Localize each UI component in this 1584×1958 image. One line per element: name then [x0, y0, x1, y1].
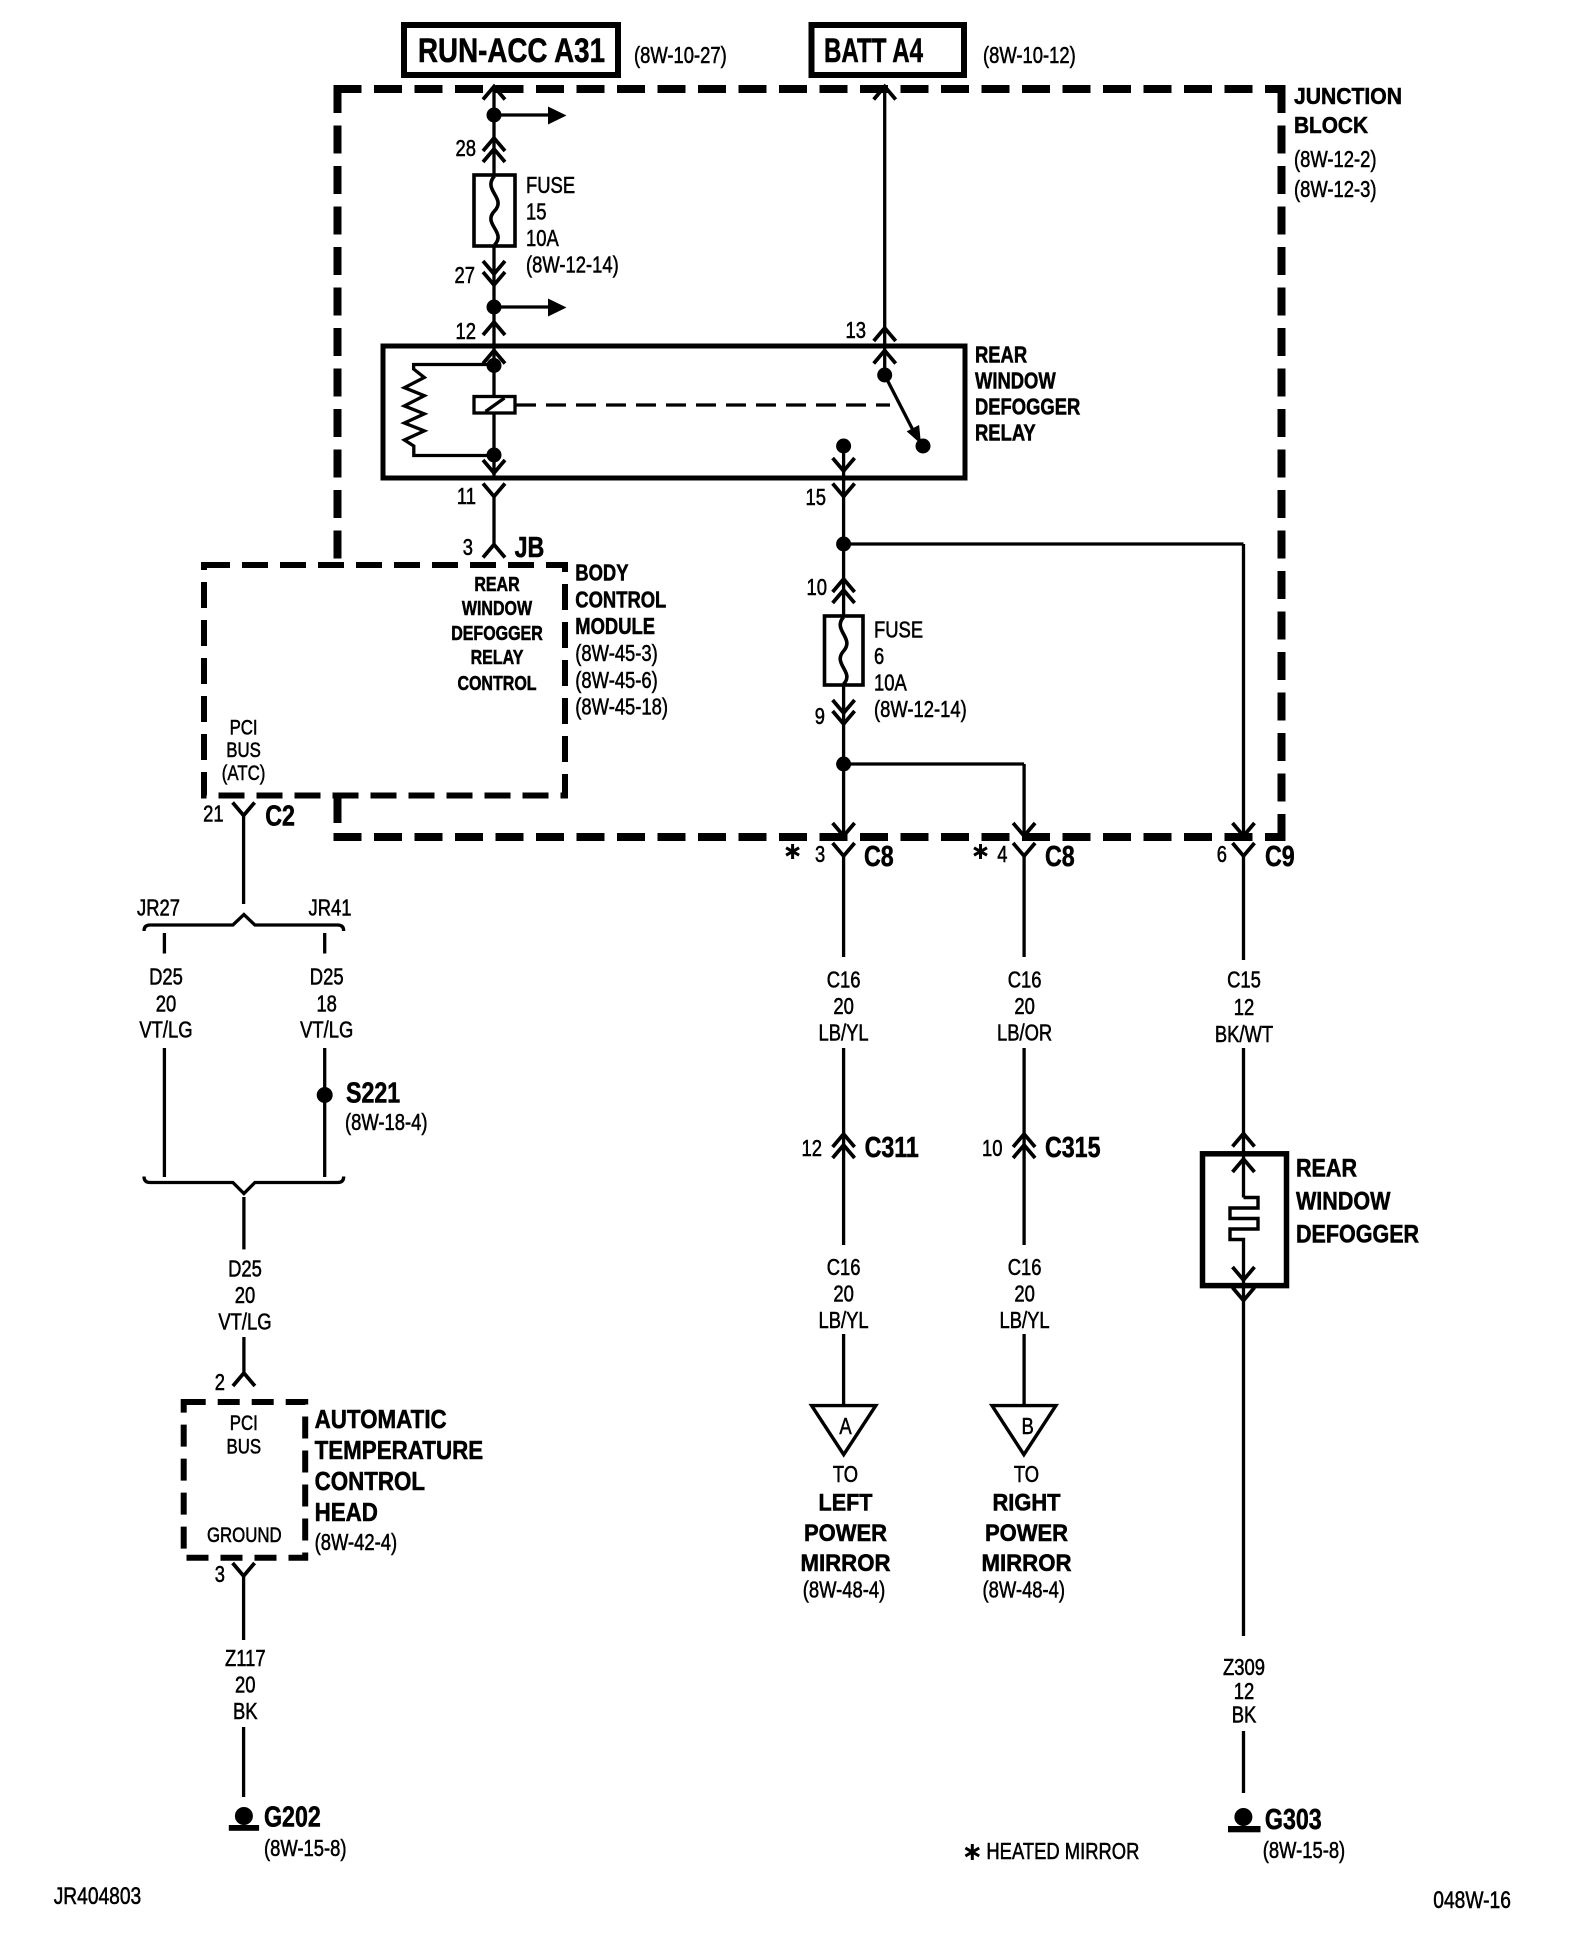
svg-text:FUSE: FUSE [526, 172, 575, 198]
svg-text:12: 12 [456, 318, 477, 344]
svg-text:C16: C16 [1008, 1254, 1042, 1280]
svg-text:LB/YL: LB/YL [1000, 1307, 1050, 1333]
svg-text:LEFT: LEFT [819, 1490, 873, 1517]
svg-text:DEFOGGER: DEFOGGER [1296, 1221, 1419, 1249]
svg-text:(8W-48-4): (8W-48-4) [983, 1577, 1066, 1603]
svg-text:(8W-45-3): (8W-45-3) [575, 640, 658, 666]
svg-text:20: 20 [833, 1281, 854, 1307]
svg-text:(8W-18-4): (8W-18-4) [345, 1109, 428, 1135]
svg-text:POWER: POWER [804, 1520, 887, 1547]
svg-text:(8W-10-12): (8W-10-12) [983, 42, 1076, 68]
svg-text:3: 3 [215, 1561, 225, 1587]
svg-text:C8: C8 [864, 841, 894, 873]
svg-text:VT/LG: VT/LG [300, 1017, 353, 1043]
svg-text:C311: C311 [865, 1132, 919, 1164]
svg-text:C315: C315 [1045, 1132, 1101, 1164]
svg-text:MIRROR: MIRROR [801, 1550, 891, 1577]
svg-text:(8W-42-4): (8W-42-4) [315, 1529, 398, 1555]
svg-text:13: 13 [846, 317, 867, 343]
svg-text:CONTROL: CONTROL [457, 673, 536, 695]
svg-text:C2: C2 [265, 801, 295, 833]
svg-text:10: 10 [982, 1135, 1003, 1161]
svg-text:JB: JB [515, 532, 545, 564]
svg-text:Z309: Z309 [1223, 1654, 1265, 1680]
svg-text:PCI: PCI [230, 1412, 258, 1435]
svg-text:12: 12 [1234, 1678, 1255, 1704]
svg-text:B: B [1022, 1413, 1034, 1439]
svg-text:REAR: REAR [1296, 1155, 1357, 1183]
svg-text:(8W-45-18): (8W-45-18) [575, 694, 668, 720]
svg-text:10: 10 [807, 574, 828, 600]
svg-text:9: 9 [815, 703, 825, 729]
svg-text:VT/LG: VT/LG [218, 1309, 271, 1335]
svg-text:HEATED MIRROR: HEATED MIRROR [986, 1838, 1139, 1864]
svg-text:JR404803: JR404803 [54, 1883, 142, 1910]
svg-text:11: 11 [457, 483, 476, 509]
svg-text:D25: D25 [228, 1256, 262, 1282]
svg-text:MODULE: MODULE [575, 613, 655, 639]
svg-text:LB/YL: LB/YL [819, 1020, 869, 1046]
svg-text:15: 15 [526, 198, 547, 224]
svg-text:JR41: JR41 [309, 895, 352, 921]
svg-text:20: 20 [235, 1672, 256, 1698]
svg-text:(8W-12-14): (8W-12-14) [526, 251, 619, 277]
svg-text:(8W-15-8): (8W-15-8) [264, 1835, 347, 1861]
svg-text:C8: C8 [1045, 841, 1075, 873]
svg-text:(8W-15-8): (8W-15-8) [1263, 1837, 1346, 1863]
svg-text:DEFOGGER: DEFOGGER [451, 623, 543, 645]
svg-text:20: 20 [1014, 993, 1035, 1019]
svg-text:WINDOW: WINDOW [462, 598, 532, 620]
svg-text:BATT A4: BATT A4 [824, 32, 923, 70]
svg-text:BLOCK: BLOCK [1294, 112, 1368, 138]
svg-text:(8W-45-6): (8W-45-6) [575, 667, 658, 693]
svg-text:12: 12 [802, 1135, 823, 1161]
svg-text:TEMPERATURE: TEMPERATURE [315, 1435, 484, 1465]
svg-text:TO: TO [833, 1461, 858, 1487]
svg-text:4: 4 [997, 841, 1007, 867]
svg-text:D25: D25 [149, 964, 183, 990]
svg-text:10A: 10A [874, 670, 907, 696]
svg-text:VT/LG: VT/LG [139, 1017, 192, 1043]
svg-text:CONTROL: CONTROL [575, 586, 666, 612]
svg-text:(ATC): (ATC) [222, 762, 266, 785]
svg-text:MIRROR: MIRROR [982, 1550, 1072, 1577]
svg-text:A: A [839, 1413, 852, 1439]
svg-text:S221: S221 [346, 1078, 400, 1110]
svg-text:JR27: JR27 [137, 895, 180, 921]
svg-text:C16: C16 [1008, 967, 1042, 993]
svg-text:BODY: BODY [575, 560, 628, 586]
svg-text:BK: BK [1232, 1702, 1257, 1728]
svg-text:RUN-ACC A31: RUN-ACC A31 [418, 32, 605, 70]
svg-text:BUS: BUS [227, 1436, 262, 1459]
svg-text:RELAY: RELAY [975, 420, 1036, 446]
svg-text:G303: G303 [1265, 1804, 1322, 1836]
svg-text:BUS: BUS [226, 739, 261, 762]
svg-text:21: 21 [203, 801, 224, 827]
svg-text:(8W-12-2): (8W-12-2) [1294, 146, 1377, 172]
svg-text:FUSE: FUSE [874, 617, 923, 643]
svg-text:JUNCTION: JUNCTION [1294, 83, 1402, 109]
svg-text:(8W-12-3): (8W-12-3) [1294, 176, 1377, 202]
svg-text:D25: D25 [310, 964, 344, 990]
svg-text:WINDOW: WINDOW [975, 368, 1056, 394]
svg-text:BK/WT: BK/WT [1215, 1021, 1273, 1047]
svg-text:(8W-48-4): (8W-48-4) [803, 1577, 886, 1603]
svg-text:C9: C9 [1265, 841, 1295, 873]
svg-text:RELAY: RELAY [471, 647, 524, 669]
svg-text:DEFOGGER: DEFOGGER [975, 394, 1081, 420]
svg-text:12: 12 [1234, 994, 1255, 1020]
svg-text:27: 27 [455, 262, 476, 288]
svg-text:6: 6 [1217, 841, 1227, 867]
svg-text:GROUND: GROUND [207, 1524, 282, 1547]
svg-text:10A: 10A [526, 225, 559, 251]
svg-text:048W-16: 048W-16 [1433, 1887, 1511, 1914]
svg-text:3: 3 [463, 534, 473, 560]
svg-text:15: 15 [806, 484, 827, 510]
svg-text:(8W-10-27): (8W-10-27) [634, 42, 727, 68]
svg-text:20: 20 [156, 990, 177, 1016]
svg-text:G202: G202 [264, 1802, 321, 1834]
svg-text:2: 2 [215, 1369, 225, 1395]
svg-text:LB/YL: LB/YL [819, 1307, 869, 1333]
svg-text:3: 3 [815, 841, 825, 867]
svg-text:C16: C16 [827, 967, 861, 993]
svg-text:BK: BK [233, 1698, 258, 1724]
svg-text:REAR: REAR [975, 342, 1027, 368]
svg-text:20: 20 [833, 993, 854, 1019]
svg-text:POWER: POWER [985, 1520, 1068, 1547]
svg-text:C15: C15 [1227, 967, 1261, 993]
svg-text:LB/OR: LB/OR [997, 1020, 1052, 1046]
svg-text:Z117: Z117 [225, 1645, 266, 1671]
svg-text:20: 20 [235, 1282, 256, 1308]
svg-text:20: 20 [1014, 1281, 1035, 1307]
svg-text:PCI: PCI [230, 717, 258, 740]
svg-text:18: 18 [316, 990, 337, 1016]
svg-text:HEAD: HEAD [315, 1497, 378, 1527]
svg-text:28: 28 [456, 135, 477, 161]
svg-text:(8W-12-14): (8W-12-14) [874, 696, 967, 722]
svg-text:RIGHT: RIGHT [993, 1490, 1061, 1517]
svg-text:WINDOW: WINDOW [1296, 1188, 1391, 1216]
svg-text:C16: C16 [827, 1254, 861, 1280]
svg-text:AUTOMATIC: AUTOMATIC [315, 1404, 447, 1434]
svg-text:CONTROL: CONTROL [315, 1466, 426, 1496]
svg-text:6: 6 [874, 643, 884, 669]
svg-text:REAR: REAR [474, 574, 520, 596]
svg-text:TO: TO [1014, 1461, 1039, 1487]
